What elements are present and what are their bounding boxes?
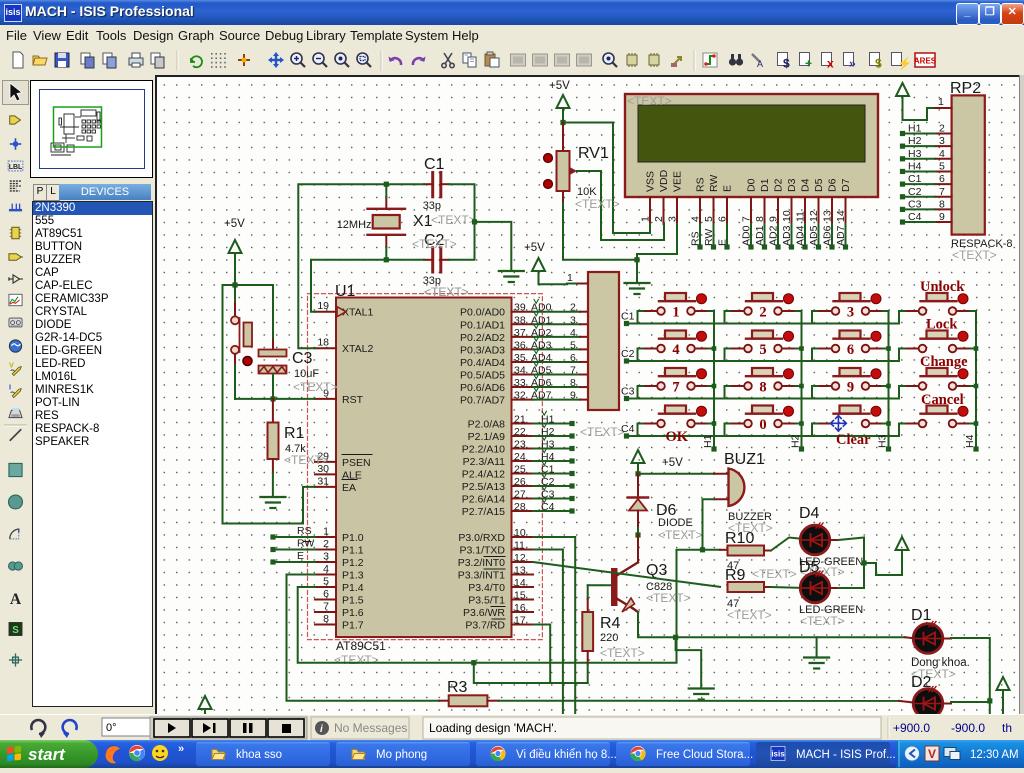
svg-text:8: 8 bbox=[939, 198, 945, 210]
svg-text:6: 6 bbox=[847, 342, 854, 358]
svg-text:12:30 AM: 12:30 AM bbox=[970, 749, 1019, 761]
svg-text:14: 14 bbox=[835, 210, 847, 222]
svg-text:V: V bbox=[928, 747, 936, 761]
svg-text:x: x bbox=[827, 57, 834, 71]
svg-text:P0.7/AD7: P0.7/AD7 bbox=[460, 395, 505, 407]
svg-text:D6: D6 bbox=[827, 178, 839, 192]
svg-text:<TEXT>: <TEXT> bbox=[752, 567, 797, 581]
svg-text:C4: C4 bbox=[908, 211, 922, 223]
svg-text:C1: C1 bbox=[541, 464, 555, 476]
svg-text:Clear: Clear bbox=[836, 432, 871, 448]
svg-text:4: 4 bbox=[672, 342, 679, 358]
svg-text:4: 4 bbox=[323, 563, 329, 575]
power arrow (LEDs) bbox=[896, 537, 909, 550]
button row3 col2 bbox=[752, 368, 773, 376]
svg-text:$: $ bbox=[875, 57, 882, 71]
svg-text:H3: H3 bbox=[908, 148, 922, 160]
svg-text:37: 37 bbox=[514, 327, 526, 339]
svg-text:36: 36 bbox=[514, 339, 526, 351]
svg-text:P2.0/A8: P2.0/A8 bbox=[468, 419, 506, 431]
svg-text:D1: D1 bbox=[911, 607, 932, 624]
svg-text:39: 39 bbox=[514, 302, 526, 314]
svg-text:+5V: +5V bbox=[549, 80, 570, 92]
svg-text:H4: H4 bbox=[541, 451, 555, 463]
svg-text:9: 9 bbox=[939, 211, 945, 223]
svg-text:P3.0/RXD: P3.0/RXD bbox=[458, 532, 505, 544]
svg-text:khoa sso: khoa sso bbox=[236, 749, 282, 761]
svg-text:AD3: AD3 bbox=[781, 225, 793, 246]
resistor pack RP2 RESPACK-8 bbox=[952, 95, 985, 234]
svg-text:D2: D2 bbox=[911, 674, 932, 691]
LCD display LM016L bbox=[625, 94, 878, 197]
svg-text:RW: RW bbox=[703, 229, 715, 246]
svg-text:AD4: AD4 bbox=[795, 225, 807, 246]
svg-text:I: I bbox=[9, 382, 11, 391]
LED D2 bbox=[913, 689, 943, 719]
LED D1 bbox=[913, 624, 943, 654]
svg-text:4: 4 bbox=[690, 216, 702, 222]
power arrow (bottom left, clipped) bbox=[199, 696, 212, 709]
svg-text:1: 1 bbox=[323, 526, 329, 538]
svg-text:7: 7 bbox=[570, 365, 576, 377]
svg-text:H1: H1 bbox=[541, 414, 555, 426]
svg-text:H1: H1 bbox=[908, 123, 922, 135]
capacitor C2 33p bbox=[431, 248, 434, 272]
resistor R10 47 bbox=[720, 549, 728, 551]
LED D4 bbox=[800, 525, 830, 555]
svg-text:XTAL1: XTAL1 bbox=[342, 307, 373, 319]
svg-text:3: 3 bbox=[847, 305, 854, 321]
svg-text:H4: H4 bbox=[964, 434, 976, 448]
svg-text:11: 11 bbox=[795, 211, 807, 222]
resistor pack RP1 (vertical) bbox=[588, 272, 619, 410]
svg-text:AD7: AD7 bbox=[531, 390, 552, 402]
svg-text:D1: D1 bbox=[759, 178, 771, 192]
svg-text:H4: H4 bbox=[908, 160, 922, 172]
svg-text:32: 32 bbox=[514, 390, 526, 402]
svg-text:8: 8 bbox=[754, 216, 766, 222]
button row1 col3 bbox=[840, 293, 861, 301]
svg-text:$: $ bbox=[783, 57, 790, 71]
svg-text:7: 7 bbox=[323, 601, 329, 613]
wire +5V rail bbox=[223, 284, 274, 286]
Q3 base wire + R4 bbox=[588, 584, 611, 586]
svg-text:8: 8 bbox=[323, 613, 329, 625]
svg-text:E: E bbox=[722, 185, 734, 192]
svg-text:D0: D0 bbox=[746, 178, 758, 192]
diode D6 bbox=[637, 474, 639, 498]
svg-text:7: 7 bbox=[939, 186, 945, 198]
button row4 col1 bbox=[665, 406, 686, 414]
keypad row bus C4 bbox=[627, 435, 900, 437]
svg-text:<TEXT>: <TEXT> bbox=[284, 453, 329, 467]
svg-text:17: 17 bbox=[514, 615, 526, 627]
C1/C2 right node to ground bbox=[441, 183, 449, 185]
U1 right pins P3.0-P3.7 (10-17) bbox=[512, 536, 534, 538]
svg-text:C1: C1 bbox=[424, 156, 445, 173]
svg-text:-900.0: -900.0 bbox=[951, 721, 985, 735]
svg-text:Unlock: Unlock bbox=[920, 279, 965, 295]
svg-text:+5V: +5V bbox=[662, 457, 683, 469]
svg-text:<TEXT>: <TEXT> bbox=[424, 285, 469, 299]
svg-text:ARES: ARES bbox=[914, 57, 937, 66]
D4/D5 right leads to power arrow bbox=[830, 539, 839, 541]
svg-text:E: E bbox=[297, 550, 304, 562]
svg-text:D3: D3 bbox=[786, 178, 798, 192]
svg-text:P3.1/TXD: P3.1/TXD bbox=[459, 545, 505, 557]
svg-text:10: 10 bbox=[514, 527, 526, 539]
svg-text:AD2: AD2 bbox=[768, 225, 780, 246]
svg-text:AD0: AD0 bbox=[741, 225, 753, 246]
svg-text:2: 2 bbox=[653, 216, 665, 222]
svg-text:14: 14 bbox=[514, 577, 526, 589]
svg-text:9: 9 bbox=[570, 390, 576, 402]
branch to ground bbox=[673, 635, 678, 640]
svg-text:RS: RS bbox=[690, 231, 702, 246]
svg-text:38: 38 bbox=[514, 314, 526, 326]
button row1 col4 bbox=[927, 293, 948, 301]
window right edge strip bbox=[1019, 75, 1024, 714]
svg-text:5: 5 bbox=[759, 342, 766, 358]
svg-text:P0.6/AD6: P0.6/AD6 bbox=[460, 382, 505, 394]
svg-text:Q3: Q3 bbox=[646, 562, 667, 579]
svg-text:1: 1 bbox=[938, 96, 944, 108]
svg-text:C2: C2 bbox=[908, 186, 922, 198]
svg-text:Lock: Lock bbox=[926, 317, 958, 333]
RP2 pins 2-9 H1-H4 C1-C4 bbox=[935, 133, 952, 135]
svg-text:MACH - ISIS Prof...: MACH - ISIS Prof... bbox=[796, 749, 896, 761]
svg-text:RW: RW bbox=[297, 538, 314, 550]
resistor R1 4.7k bbox=[272, 399, 274, 423]
svg-text:C3: C3 bbox=[621, 386, 635, 398]
menu bar bbox=[0, 25, 1024, 47]
svg-text:P1.4: P1.4 bbox=[342, 582, 364, 594]
svg-text:BUZ1: BUZ1 bbox=[724, 451, 765, 468]
overview panel bbox=[30, 80, 153, 178]
svg-text:P3.6/WR: P3.6/WR bbox=[463, 607, 505, 619]
button row4 col2 bbox=[752, 406, 773, 414]
button row2 col4 bbox=[927, 331, 948, 339]
svg-text:35: 35 bbox=[514, 352, 526, 364]
keypad row bus C1 bbox=[627, 323, 900, 325]
svg-text:<TEXT>: <TEXT> bbox=[627, 94, 672, 108]
svg-text:RW: RW bbox=[708, 175, 720, 192]
wire LCD VDD from RV1 wiper bbox=[577, 171, 664, 240]
svg-text:R10: R10 bbox=[725, 530, 754, 547]
svg-text:C1: C1 bbox=[908, 173, 922, 185]
svg-text:D5: D5 bbox=[813, 178, 825, 192]
P1.0/P1.1/P1.2 net terminals RS RW E bbox=[273, 536, 315, 538]
svg-text:4: 4 bbox=[939, 148, 945, 160]
buzzer BUZ1 bbox=[729, 469, 745, 507]
svg-text:+: + bbox=[805, 57, 812, 71]
wire P3.7 down to R4 bottom bbox=[533, 625, 588, 684]
svg-text:V: V bbox=[9, 360, 14, 369]
top toolbar bbox=[0, 46, 1024, 75]
transistor Q3 C828 bbox=[611, 568, 618, 606]
svg-text:7: 7 bbox=[741, 216, 753, 222]
XP window title bar bbox=[0, 0, 1024, 25]
svg-text:P3.5/T1: P3.5/T1 bbox=[468, 595, 505, 607]
svg-text:AD7: AD7 bbox=[835, 225, 847, 246]
button row4 col4 bbox=[927, 406, 948, 414]
svg-text:P3.2/INT0: P3.2/INT0 bbox=[458, 557, 505, 569]
svg-text:6: 6 bbox=[570, 352, 576, 364]
svg-text:23: 23 bbox=[514, 439, 526, 451]
svg-text:H2: H2 bbox=[908, 135, 922, 147]
svg-text:22: 22 bbox=[514, 426, 526, 438]
bottom control bar bbox=[0, 714, 1024, 741]
svg-text:15: 15 bbox=[514, 590, 526, 602]
svg-text:16: 16 bbox=[514, 602, 526, 614]
svg-text:7: 7 bbox=[672, 380, 679, 396]
windows taskbar bbox=[0, 740, 1024, 768]
svg-text:R1: R1 bbox=[284, 425, 305, 442]
svg-text:P1.5: P1.5 bbox=[342, 595, 364, 607]
svg-text:12: 12 bbox=[808, 210, 820, 222]
capacitor C1 33p bbox=[431, 173, 434, 197]
keypad row bus C3 bbox=[627, 398, 900, 400]
svg-text:6: 6 bbox=[939, 173, 945, 185]
svg-text:P0.2/AD2: P0.2/AD2 bbox=[460, 332, 505, 344]
left tool strip bbox=[0, 75, 31, 714]
svg-text:<TEXT>: <TEXT> bbox=[600, 646, 645, 660]
svg-text:1: 1 bbox=[567, 272, 573, 284]
svg-text:13: 13 bbox=[822, 210, 834, 222]
svg-text:D2: D2 bbox=[773, 178, 785, 192]
svg-text:5: 5 bbox=[703, 216, 715, 222]
power arrow (bottom right) bbox=[997, 677, 1010, 690]
svg-text:31: 31 bbox=[317, 475, 329, 487]
button row2 col2 bbox=[752, 331, 773, 339]
svg-text:P1.6: P1.6 bbox=[342, 607, 364, 619]
svg-text:28: 28 bbox=[514, 501, 526, 513]
svg-text:P1.7: P1.7 bbox=[342, 620, 364, 632]
svg-text:Vi điều khiển họ 8...: Vi điều khiển họ 8... bbox=[516, 749, 617, 761]
resistor R3 bbox=[439, 700, 449, 702]
svg-text:PSEN: PSEN bbox=[342, 457, 371, 469]
wire LCD VSS bbox=[563, 123, 650, 234]
svg-text:C3: C3 bbox=[292, 350, 313, 367]
svg-text:EA: EA bbox=[342, 482, 356, 494]
ground (mid) bbox=[816, 637, 818, 656]
wire LCD VEE to ground junction bbox=[637, 224, 677, 260]
LCD pins 1-14 with vertical labels bbox=[649, 197, 651, 224]
device list bbox=[32, 201, 153, 707]
svg-text:C1: C1 bbox=[621, 311, 635, 323]
svg-text:isis: isis bbox=[771, 750, 785, 759]
svg-text:AD6: AD6 bbox=[822, 225, 834, 246]
svg-text:A: A bbox=[10, 591, 22, 608]
svg-text:P3.3/INT1: P3.3/INT1 bbox=[458, 570, 505, 582]
svg-text:12: 12 bbox=[514, 552, 526, 564]
svg-text:9: 9 bbox=[847, 380, 854, 396]
svg-text:2: 2 bbox=[759, 305, 766, 321]
schematic canvas bbox=[155, 75, 1024, 714]
svg-text:0°: 0° bbox=[106, 722, 117, 734]
svg-text:A: A bbox=[757, 59, 763, 69]
push button (reset) bbox=[234, 285, 236, 303]
svg-text:<TEXT>: <TEXT> bbox=[727, 608, 772, 622]
svg-text:Mo phong: Mo phong bbox=[376, 749, 427, 761]
svg-text:8: 8 bbox=[570, 377, 576, 389]
svg-text:33p: 33p bbox=[423, 200, 441, 212]
svg-text:P2.6/A14: P2.6/A14 bbox=[462, 494, 505, 506]
button row3 col3 bbox=[840, 368, 861, 376]
svg-text:D4: D4 bbox=[800, 178, 812, 192]
svg-text:34: 34 bbox=[514, 365, 526, 377]
D1 leads bbox=[905, 637, 914, 638]
svg-text:6: 6 bbox=[717, 216, 729, 222]
svg-text:+900.0: +900.0 bbox=[893, 721, 930, 735]
svg-text:3: 3 bbox=[323, 551, 329, 563]
svg-text:2: 2 bbox=[939, 123, 945, 135]
svg-text:P0.1/AD1: P0.1/AD1 bbox=[460, 319, 505, 331]
svg-text:10: 10 bbox=[781, 210, 793, 222]
svg-text:OK: OK bbox=[666, 429, 689, 445]
svg-text:9: 9 bbox=[768, 216, 780, 222]
svg-text:21: 21 bbox=[514, 414, 526, 426]
svg-text:H3: H3 bbox=[877, 434, 889, 448]
U1 right pins P2.0-P2.7 / A8-A15 (21-28) with H/C net terminals bbox=[512, 423, 534, 425]
svg-text:P0.4/AD4: P0.4/AD4 bbox=[460, 357, 505, 369]
svg-text:LBL: LBL bbox=[9, 164, 23, 171]
svg-text:C2: C2 bbox=[541, 476, 555, 488]
P1.4 wire down-right bbox=[298, 550, 720, 663]
ground (R1) bbox=[260, 496, 285, 498]
svg-text:P3.4/T0: P3.4/T0 bbox=[468, 582, 505, 594]
svg-text:P0.5/AD5: P0.5/AD5 bbox=[460, 370, 505, 382]
button row3 col4 bbox=[927, 368, 948, 376]
svg-text:P2.3/A11: P2.3/A11 bbox=[463, 456, 506, 468]
svg-text:5: 5 bbox=[323, 576, 329, 588]
svg-text:P2.1/A9: P2.1/A9 bbox=[468, 431, 506, 443]
svg-text:No Messages: No Messages bbox=[334, 721, 407, 735]
selection dashed box around U1 bbox=[308, 294, 543, 640]
svg-text:D5: D5 bbox=[799, 559, 820, 576]
svg-text:<TEXT>: <TEXT> bbox=[334, 653, 379, 667]
svg-text:C3: C3 bbox=[908, 198, 922, 210]
svg-text:X1: X1 bbox=[413, 213, 433, 230]
svg-text:<TEXT>: <TEXT> bbox=[431, 213, 476, 227]
svg-text:+5V: +5V bbox=[524, 242, 545, 254]
svg-text:<TEXT>: <TEXT> bbox=[293, 380, 338, 394]
wire P3.2 diagonal to R9 bbox=[533, 562, 720, 587]
wire to buzzer + pin bbox=[638, 473, 714, 475]
svg-text:Cancel: Cancel bbox=[921, 392, 964, 408]
svg-text:2: 2 bbox=[323, 538, 329, 550]
svg-text:AD1: AD1 bbox=[754, 225, 766, 246]
svg-text:18: 18 bbox=[317, 337, 329, 349]
X1 leads bbox=[385, 197, 387, 209]
Q3 emitter wire to D1 bbox=[638, 612, 905, 637]
P3.1 wire down bbox=[533, 550, 563, 714]
button row2 col1 bbox=[665, 331, 686, 339]
svg-text:<TEXT>: <TEXT> bbox=[580, 425, 625, 439]
svg-text:RST: RST bbox=[342, 394, 364, 406]
keypad column nets H1-H4 bbox=[713, 311, 715, 449]
button row2 col3 bbox=[840, 331, 861, 339]
ground (LCD/pot) bbox=[636, 260, 638, 283]
svg-text:RP2: RP2 bbox=[950, 80, 981, 97]
svg-text:<TEXT>: <TEXT> bbox=[646, 591, 691, 605]
svg-text:Loading design 'MACH'.: Loading design 'MACH'. bbox=[429, 721, 557, 735]
svg-text:27: 27 bbox=[514, 489, 526, 501]
P1.3 wire to R3 bbox=[287, 575, 440, 701]
svg-text:R9: R9 bbox=[725, 567, 746, 584]
svg-text:P3.7/RD: P3.7/RD bbox=[465, 620, 505, 632]
svg-text:»: » bbox=[849, 57, 856, 71]
svg-text:5: 5 bbox=[570, 339, 576, 351]
svg-text:th: th bbox=[1002, 721, 1012, 735]
svg-text:S: S bbox=[12, 625, 19, 636]
svg-text:⚡: ⚡ bbox=[897, 57, 912, 71]
LED D5 bbox=[800, 573, 830, 603]
svg-text:P2.5/A13: P2.5/A13 bbox=[462, 481, 505, 493]
svg-text:Free Cloud Stora...: Free Cloud Stora... bbox=[656, 749, 753, 761]
svg-text:P1.1: P1.1 bbox=[342, 545, 364, 557]
svg-text:AD5: AD5 bbox=[808, 225, 820, 246]
svg-text:5: 5 bbox=[939, 160, 945, 172]
svg-text:<TEXT>: <TEXT> bbox=[952, 248, 997, 262]
jog from P1.4 wire bbox=[471, 660, 476, 665]
svg-text:<TEXT>: <TEXT> bbox=[800, 614, 845, 628]
svg-text:P1.2: P1.2 bbox=[342, 557, 364, 569]
svg-text:D4: D4 bbox=[799, 505, 820, 522]
button row1 col1 bbox=[665, 293, 686, 301]
svg-text:H3: H3 bbox=[541, 439, 555, 451]
mouse crosshair cursor bbox=[831, 416, 847, 432]
svg-text:VEE: VEE bbox=[672, 171, 684, 192]
svg-text:D7: D7 bbox=[840, 178, 852, 192]
button row1 col2 bbox=[752, 293, 773, 301]
svg-text:AT89C51: AT89C51 bbox=[336, 639, 386, 653]
svg-text:RV1: RV1 bbox=[578, 145, 609, 162]
svg-text:<TEXT>: <TEXT> bbox=[575, 197, 620, 211]
svg-text:Change: Change bbox=[920, 354, 968, 370]
svg-text:P2.7/A15: P2.7/A15 bbox=[462, 506, 505, 518]
XTAL2 net wire bbox=[424, 259, 433, 261]
svg-text:C2: C2 bbox=[621, 348, 635, 360]
svg-text:3: 3 bbox=[667, 216, 679, 222]
svg-text:P0.0/AD0: P0.0/AD0 bbox=[460, 307, 505, 319]
svg-text:33: 33 bbox=[514, 377, 526, 389]
svg-text:P1.3: P1.3 bbox=[342, 570, 364, 582]
svg-text:24: 24 bbox=[514, 451, 526, 463]
svg-text:19: 19 bbox=[317, 300, 329, 312]
svg-text:XTAL2: XTAL2 bbox=[342, 343, 373, 355]
EA wire to +5V rail bbox=[223, 285, 316, 524]
svg-text:13: 13 bbox=[514, 565, 526, 577]
svg-text:0: 0 bbox=[759, 417, 766, 433]
keypad row bus C2 bbox=[627, 360, 900, 362]
svg-text:1: 1 bbox=[672, 305, 679, 321]
svg-text:2: 2 bbox=[570, 302, 576, 314]
svg-text:1: 1 bbox=[640, 216, 652, 222]
pot bottom wire to ground junction bbox=[562, 191, 564, 203]
svg-text:C4: C4 bbox=[541, 501, 555, 513]
svg-text:RS: RS bbox=[297, 525, 312, 537]
svg-text:8: 8 bbox=[759, 380, 766, 396]
svg-text:P1.0: P1.0 bbox=[342, 532, 364, 544]
svg-text:+5V: +5V bbox=[224, 218, 245, 230]
devices header: P L buttons + DEVICES bbox=[31, 184, 151, 201]
svg-text:P0.3/AD3: P0.3/AD3 bbox=[460, 344, 505, 356]
pot RV1 bbox=[562, 123, 564, 152]
svg-text:11: 11 bbox=[514, 540, 525, 552]
button row3 col1 bbox=[665, 368, 686, 376]
U1 right pins P0.0-P0.7 / AD0-AD7 (39-32), wires to RP1 bbox=[512, 311, 534, 313]
